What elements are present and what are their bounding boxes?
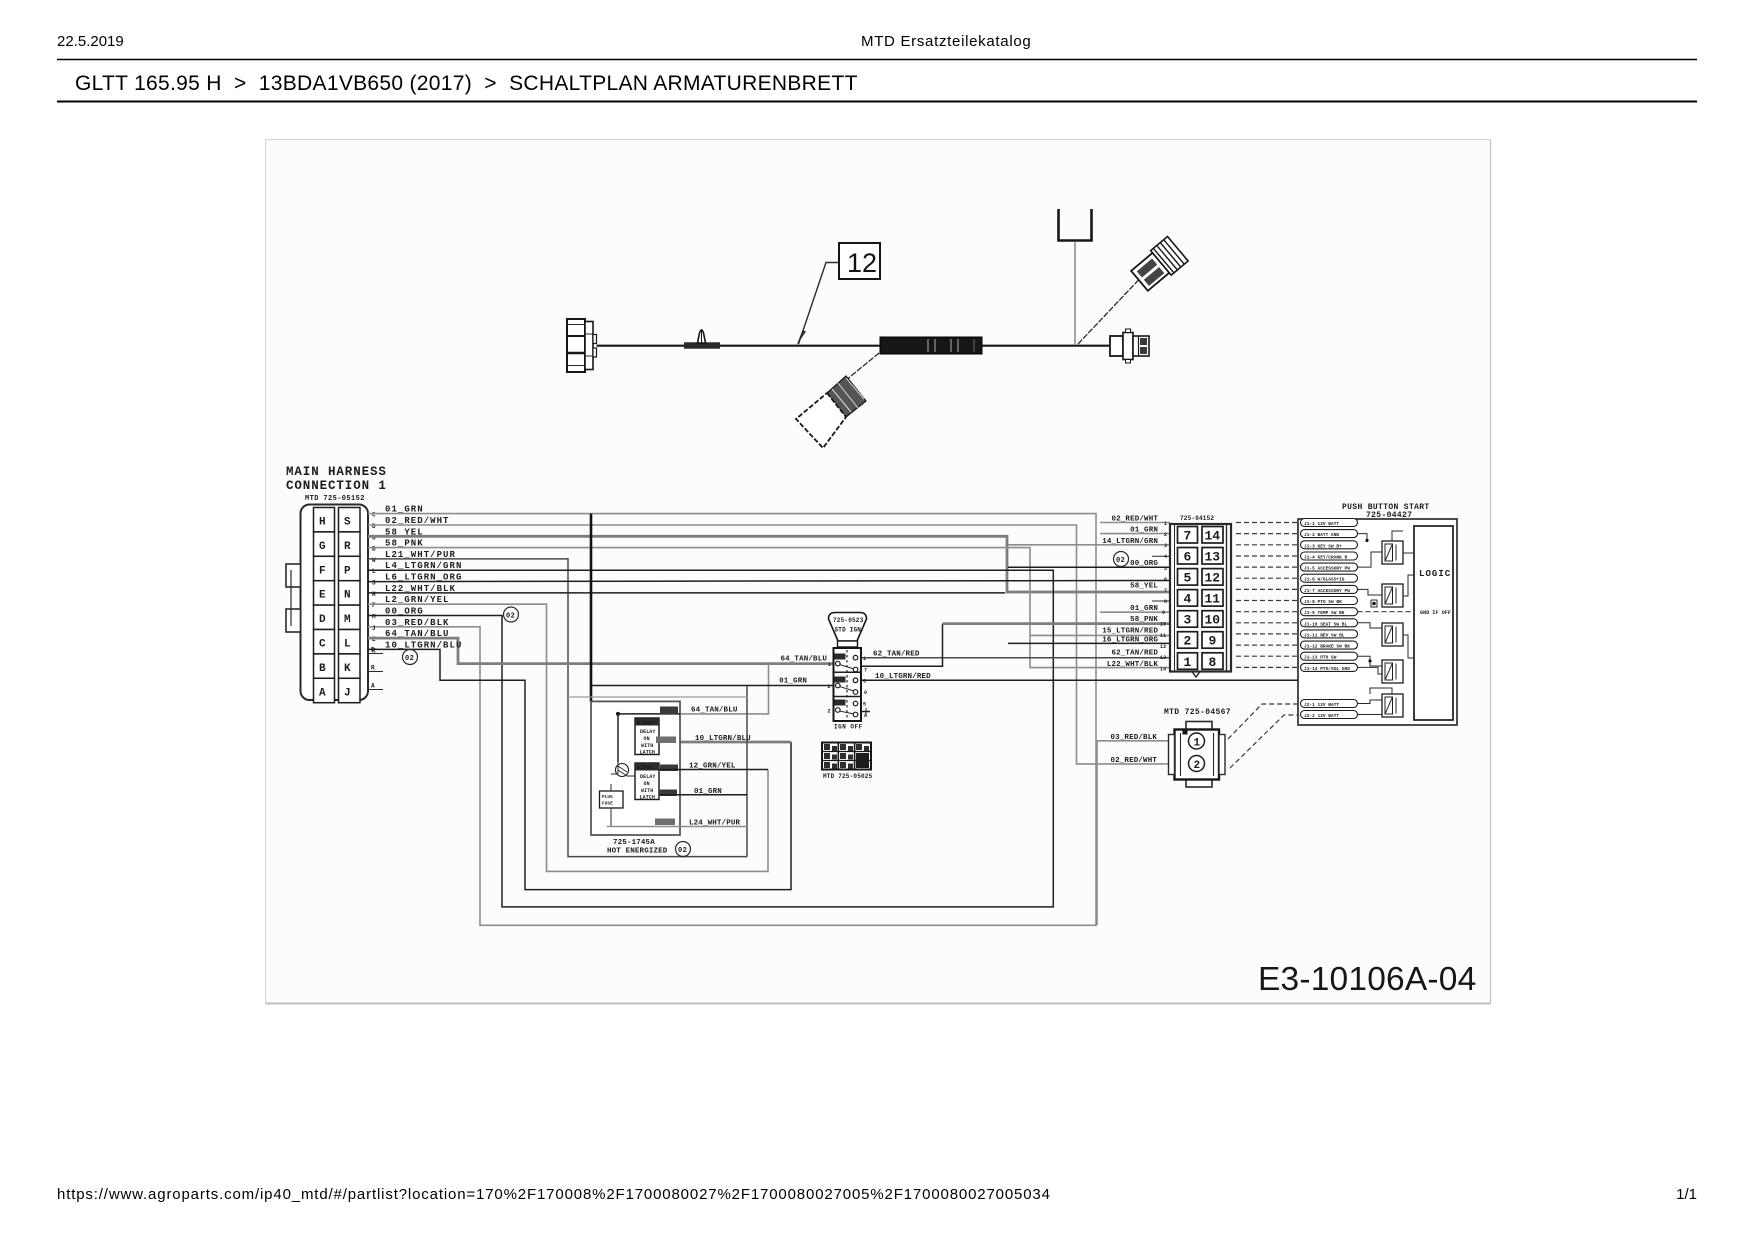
- svg-text:J1-10 SEAT SW BL: J1-10 SEAT SW BL: [1304, 621, 1348, 627]
- wire 02_RED/WHT (pin D): [368, 516, 1174, 764]
- svg-text:12: 12: [847, 248, 877, 278]
- key switch body: [834, 648, 862, 721]
- svg-text:725-1745A: 725-1745A: [613, 839, 655, 847]
- wire 58_PNK to connector pin 10: [943, 622, 1171, 625]
- wire 01_GRN stub connector pin 9: [1100, 611, 1170, 613]
- svg-text:J1-9 TEMP SW BK: J1-9 TEMP SW BK: [1304, 610, 1345, 616]
- svg-text:K: K: [344, 663, 351, 675]
- heat shrink sleeve: [880, 337, 982, 354]
- svg-text:E: E: [319, 590, 326, 602]
- svg-text:11: 11: [1205, 592, 1221, 607]
- svg-text:FUSE: FUSE: [602, 801, 613, 807]
- svg-text:L: L: [372, 568, 376, 575]
- pin A: [314, 678, 335, 702]
- wire 03_RED/BLK to 2-pin connector: [1097, 734, 1174, 926]
- svg-text:F: F: [372, 602, 376, 609]
- pin E: [314, 581, 335, 605]
- right end connector P4: [1110, 329, 1149, 363]
- harness connector P1 (left multi-pin plug): [567, 319, 597, 372]
- terminal J1-12: [1301, 641, 1358, 650]
- wire 62_TAN/RED key switch to connector: [861, 651, 1170, 659]
- svg-text:J2-2 12V BATT: J2-2 12V BATT: [1304, 713, 1339, 719]
- terminal J1-6: [1301, 574, 1358, 583]
- svg-text:00_ORG: 00_ORG: [385, 607, 424, 617]
- svg-text:3: 3: [1184, 613, 1192, 628]
- wire tag 10: [656, 737, 676, 744]
- connector J2 cavity 1: [1178, 653, 1198, 670]
- svg-text:4: 4: [1164, 554, 1167, 560]
- svg-text:02: 02: [405, 655, 414, 663]
- svg-text:16_LTGRN_ORG: 16_LTGRN_ORG: [1102, 636, 1158, 644]
- wire 64_TAN/BLU (pin E): [368, 629, 834, 714]
- cable clip: [684, 329, 720, 349]
- relay RL1 wiring: [1358, 534, 1368, 541]
- svg-text:5.2A50: 5.2A50: [637, 765, 654, 771]
- harness link dashed wire J3-2 to module: [1230, 715, 1297, 768]
- svg-text:03_RED/BLK: 03_RED/BLK: [385, 618, 450, 628]
- key switch contacts left: [836, 661, 841, 666]
- svg-text:15_LTGRN/RED: 15_LTGRN/RED: [1102, 627, 1158, 635]
- terminal J2-1: [1301, 700, 1358, 709]
- connector J2 cavity 13: [1202, 548, 1223, 565]
- key switch blades: [840, 665, 855, 670]
- svg-text:14: 14: [1205, 529, 1221, 544]
- svg-text:A: A: [371, 683, 375, 690]
- svg-text:J1-6 W/GLASS+IG: J1-6 W/GLASS+IG: [1304, 577, 1345, 583]
- svg-text:1: 1: [1164, 521, 1167, 527]
- terminal J1-10: [1301, 619, 1358, 628]
- svg-text:6: 6: [1184, 550, 1192, 565]
- relay RL3 wiring: [1358, 623, 1383, 628]
- connector J1 body: [301, 505, 369, 701]
- fuse block FB1: [822, 743, 871, 770]
- connector J3 body (2 pin): [1169, 722, 1226, 788]
- wire L22_WHT/BLK (pin H): [368, 584, 1005, 598]
- terminal J1-4: [1301, 552, 1358, 561]
- svg-text:6: 6: [1164, 577, 1167, 583]
- svg-text:B: B: [319, 663, 326, 675]
- callout 12 box: [839, 243, 880, 279]
- svg-text:2: 2: [1184, 634, 1192, 649]
- key switch stub pin A: [861, 711, 870, 713]
- relay RL2 wiring: [1358, 589, 1383, 595]
- terminal J2-2: [1301, 711, 1358, 720]
- wire L4_LTGRN/GRN (pin L): [368, 561, 1053, 907]
- svg-text:J1-2 BATT GND: J1-2 BATT GND: [1304, 532, 1339, 538]
- svg-text:WITH: WITH: [641, 788, 653, 794]
- wire L2_GRN/YEL (pin F): [368, 595, 768, 871]
- svg-text:N: N: [344, 590, 351, 602]
- svg-text:LATCH: LATCH: [640, 750, 656, 756]
- drop wire from bracket: [1074, 242, 1076, 345]
- svg-text:2: 2: [1164, 532, 1167, 538]
- svg-text:G: G: [319, 541, 326, 553]
- fuse F1: [600, 784, 624, 827]
- pin B: [314, 654, 335, 678]
- wire stub connector pin 2: [1100, 533, 1170, 535]
- wire 10_LTGRN/BLU (pin K): [368, 640, 791, 889]
- spare pin stub R: [368, 671, 383, 673]
- node 02 splice (relay module): [676, 842, 691, 857]
- svg-text:R: R: [344, 541, 351, 553]
- relay RL2: [1382, 584, 1403, 607]
- pin K: [339, 654, 361, 678]
- svg-text:8: 8: [1164, 599, 1167, 605]
- svg-text:64_TAN/BLU: 64_TAN/BLU: [691, 707, 738, 715]
- svg-text:S: S: [372, 580, 376, 587]
- svg-text:J1-14 PTO/SOL GND: J1-14 PTO/SOL GND: [1304, 666, 1350, 672]
- svg-text:12: 12: [1160, 644, 1166, 650]
- wire L6_LTGRN_ORG (pin S): [368, 573, 1170, 587]
- branch wire to top-right connector: [1078, 271, 1147, 344]
- svg-text:M: M: [372, 614, 376, 621]
- terminal J1-11: [1301, 630, 1358, 639]
- svg-text:62_TAN/RED: 62_TAN/RED: [1111, 650, 1158, 658]
- svg-text:J1-7 ACCESSORY PW: J1-7 ACCESSORY PW: [1304, 588, 1350, 594]
- svg-text:64_TAN/BLU: 64_TAN/BLU: [780, 656, 827, 664]
- svg-text:J: J: [344, 687, 351, 699]
- svg-text:MAIN HARNESS: MAIN HARNESS: [286, 465, 387, 479]
- svg-text:M: M: [344, 614, 351, 626]
- diagonal connector P2 (hatched boot): [796, 376, 866, 448]
- pin M: [339, 605, 361, 629]
- wire 12_GRN/YEL relay output: [659, 763, 768, 771]
- terminal J1-7: [1301, 585, 1358, 594]
- svg-text:14: 14: [1160, 666, 1166, 672]
- svg-text:13: 13: [1205, 550, 1221, 565]
- connector J2 cavity 5: [1178, 569, 1198, 586]
- svg-text:J1-4 KEY/CRANK B: J1-4 KEY/CRANK B: [1304, 555, 1348, 561]
- relay RL5: [1382, 694, 1403, 717]
- svg-text:MTD 725-05152: MTD 725-05152: [305, 495, 365, 503]
- svg-text:1: 1: [828, 662, 831, 668]
- wire 01_GRN to key switch: [591, 678, 834, 857]
- svg-text:7: 7: [864, 668, 867, 674]
- wire stub connector pin 8: [1152, 600, 1170, 602]
- wire 58_YEL (pin G): [368, 527, 1170, 592]
- branch wire to diagonal connector: [845, 353, 879, 381]
- svg-text:1: 1: [863, 656, 866, 662]
- bracket symbol above harness: [1059, 209, 1092, 241]
- relay RL4: [1382, 660, 1403, 683]
- key switch section tag BAT: [835, 654, 846, 660]
- svg-text:J1-8 PTO SW BK: J1-8 PTO SW BK: [1304, 599, 1342, 605]
- svg-text:10: 10: [1160, 622, 1166, 628]
- svg-text:K: K: [372, 647, 376, 654]
- svg-text:ON: ON: [644, 781, 650, 787]
- svg-text:2: 2: [828, 684, 831, 690]
- connector J2 cavity 8: [1202, 653, 1223, 670]
- svg-text:5: 5: [1164, 566, 1167, 572]
- connector J3 pin 2: [1189, 756, 1205, 772]
- wire L21_WHT/PUR (pin W): [368, 550, 747, 857]
- pin R: [339, 532, 361, 556]
- svg-text:10_LTGRN/BLU: 10_LTGRN/BLU: [695, 735, 751, 743]
- svg-text:1: 1: [1184, 655, 1192, 670]
- pin H: [314, 508, 335, 532]
- relay module K1 enclosure: [591, 701, 680, 835]
- wire 58_PNK (pin B): [368, 539, 1170, 668]
- svg-text:5: 5: [1184, 571, 1192, 586]
- pin G: [314, 532, 335, 556]
- wire 00_ORG label (pin M): [372, 607, 424, 621]
- relay RL4 wiring: [1358, 656, 1383, 666]
- svg-text:https://www.agroparts.com/ip40: https://www.agroparts.com/ip40_mtd/#/par…: [57, 1186, 1051, 1203]
- svg-text:J1-1 12V BATT: J1-1 12V BATT: [1304, 521, 1339, 527]
- svg-text:J1-13 PTO SW: J1-13 PTO SW: [1304, 655, 1337, 661]
- svg-text:10: 10: [1205, 613, 1221, 628]
- gnd if off dashed wire: [1358, 611, 1415, 613]
- push button start module U1 enclosure: [1298, 519, 1457, 725]
- svg-text:H: H: [319, 517, 326, 529]
- harness link dashed wires J2 to push button module: [1236, 523, 1297, 668]
- svg-text:PLUG: PLUG: [602, 794, 613, 800]
- terminal J1-14: [1301, 663, 1358, 672]
- svg-text:7: 7: [1164, 588, 1167, 594]
- svg-text:0: 0: [864, 690, 867, 696]
- svg-text:WITH: WITH: [641, 743, 653, 749]
- svg-text:A: A: [319, 687, 326, 699]
- svg-text:H: H: [372, 591, 376, 598]
- wire 16_LTGRN_ORG stub connector pin 12: [1008, 642, 1170, 644]
- svg-text:L: L: [344, 639, 351, 651]
- svg-text:5.2A50: 5.2A50: [637, 720, 654, 726]
- pin D: [314, 605, 335, 629]
- key switch contacts right: [853, 655, 858, 660]
- svg-text:J: J: [372, 625, 376, 632]
- connector J2 cavity 6: [1178, 548, 1198, 565]
- pin L: [339, 630, 361, 654]
- svg-text:J1-12 BRAKE SW BK: J1-12 BRAKE SW BK: [1304, 644, 1350, 650]
- svg-text:LOGIC: LOGIC: [1419, 569, 1451, 579]
- svg-text:9: 9: [1209, 634, 1217, 649]
- connector J2 cavity 4: [1178, 590, 1198, 607]
- internal bus wire: [617, 714, 619, 762]
- svg-text:2: 2: [828, 709, 831, 715]
- wire 01_GRN (pin C): [368, 505, 1096, 926]
- svg-text:F: F: [319, 565, 326, 577]
- pin P: [339, 556, 361, 580]
- svg-text:ON: ON: [644, 736, 650, 742]
- svg-text:02: 02: [1116, 557, 1125, 565]
- svg-text:DELAY: DELAY: [640, 729, 656, 735]
- top-right connector P3 (hatched plug): [1129, 236, 1188, 293]
- svg-text:725-04152: 725-04152: [1180, 515, 1214, 522]
- svg-text:DELAY: DELAY: [640, 774, 656, 780]
- svg-text:L22_WHT/BLK: L22_WHT/BLK: [1107, 661, 1159, 669]
- terminal J1-8: [1301, 597, 1358, 606]
- connector J2 cavity 10: [1202, 611, 1223, 628]
- svg-text:GND IF OFF: GND IF OFF: [1420, 610, 1451, 616]
- connector J2 cavity 7: [1178, 527, 1198, 544]
- terminal J1-5: [1301, 563, 1358, 572]
- svg-text:5: 5: [863, 702, 866, 708]
- connector J2 body (14 pin): [1170, 524, 1231, 672]
- diagram sheet background: [266, 140, 1491, 1004]
- svg-text:1: 1: [1194, 738, 1201, 750]
- svg-text:01_GRN: 01_GRN: [1130, 605, 1158, 613]
- bus riser 01_GRN feed: [590, 514, 593, 702]
- spare pin stub A: [368, 689, 383, 691]
- svg-text:4: 4: [1184, 592, 1192, 607]
- svg-text:J1-11 REV SW BL: J1-11 REV SW BL: [1304, 632, 1345, 638]
- timer relay K1b DELAY ON WITH LATCH: [635, 763, 659, 801]
- pin N: [339, 581, 361, 605]
- wire tag 64: [660, 707, 678, 714]
- terminal J1-3: [1301, 541, 1358, 550]
- relay RL5 wiring: [1358, 700, 1383, 704]
- svg-text:01_GRN: 01_GRN: [779, 678, 807, 686]
- svg-text:22.5.2019: 22.5.2019: [57, 33, 124, 50]
- header rule 1: [57, 59, 1697, 61]
- terminal J1-1: [1301, 519, 1358, 528]
- relay module outer ring wire: [568, 696, 747, 698]
- wire stub connector pin 1: [1100, 522, 1170, 524]
- svg-text:J1-3 KEY SW B+: J1-3 KEY SW B+: [1304, 543, 1342, 549]
- header rule 2: [57, 101, 1697, 103]
- harness link dashed wire J3-1 to module: [1228, 704, 1297, 739]
- svg-text:MTD 725-05025: MTD 725-05025: [823, 773, 873, 780]
- svg-text:13: 13: [1160, 655, 1166, 661]
- pin J: [339, 678, 361, 702]
- harness main cable: [597, 345, 881, 347]
- logic block: [1414, 526, 1453, 720]
- connector J3 pin 1: [1189, 733, 1205, 749]
- svg-text:58_YEL: 58_YEL: [1130, 583, 1158, 591]
- connector J1 latch: [286, 564, 301, 587]
- svg-text:GLTT 165.95 H > 13BDA1VB650: GLTT 165.95 H > 13BDA1VB650 (2017) > SCH…: [75, 72, 858, 95]
- wire tag L24: [655, 819, 675, 826]
- connector J2 cavity 3: [1178, 611, 1198, 628]
- spare pin stub P: [368, 653, 383, 655]
- svg-text:2: 2: [1194, 760, 1201, 772]
- connector J2 cavity 9: [1202, 632, 1223, 649]
- wire L24_WHT/PUR relay output: [607, 820, 747, 828]
- svg-text:8: 8: [1209, 655, 1217, 670]
- svg-text:1/1: 1/1: [1676, 1186, 1697, 1203]
- connector J2 cavity 12: [1202, 569, 1223, 586]
- node 02 splice (lower left): [403, 650, 418, 665]
- svg-text:02: 02: [678, 847, 687, 855]
- svg-text:3: 3: [1164, 543, 1167, 549]
- terminal J1-9: [1301, 608, 1358, 617]
- timer relay K1a DELAY ON WITH LATCH: [635, 718, 659, 756]
- key switch S1 bezel: [829, 613, 867, 642]
- svg-text:00_ORG: 00_ORG: [1130, 560, 1158, 568]
- wire 03_RED/BLK label (pin J): [372, 618, 450, 632]
- svg-text:C: C: [372, 512, 376, 519]
- svg-text:7: 7: [1184, 529, 1192, 544]
- key switch section tag ACC: [835, 700, 846, 706]
- svg-text:J1-5 ACCESSORY PW: J1-5 ACCESSORY PW: [1304, 566, 1350, 572]
- relay RL1: [1382, 541, 1403, 564]
- transistor Q1: [611, 762, 635, 777]
- svg-text:S: S: [344, 517, 351, 529]
- node 02 splice (near 14-pin connector): [1114, 552, 1129, 567]
- relay RL3: [1382, 623, 1403, 646]
- wire tag 01: [659, 790, 677, 797]
- svg-text:D: D: [319, 614, 326, 626]
- svg-text:W: W: [372, 557, 376, 564]
- svg-text:J2-1 12V BATT: J2-1 12V BATT: [1304, 702, 1339, 708]
- svg-text:01_GRN: 01_GRN: [1130, 527, 1158, 535]
- wire 14_LTGRN/GRN stub at connector pin 3: [1008, 544, 1170, 546]
- pin S: [339, 508, 361, 532]
- terminal J1-13: [1301, 652, 1358, 661]
- svg-text:B: B: [372, 546, 376, 553]
- node 02 splice (near 00_ORG): [504, 607, 519, 622]
- wire 01_GRN relay output: [659, 788, 747, 796]
- svg-text:11: 11: [1160, 633, 1166, 639]
- svg-text:9: 9: [1162, 610, 1165, 616]
- callout 12 leader: [799, 263, 840, 345]
- node junction dot: [616, 712, 620, 716]
- svg-text:725-0523: 725-0523: [833, 617, 864, 624]
- svg-text:LATCH: LATCH: [640, 795, 656, 801]
- svg-text:IGN OFF: IGN OFF: [834, 724, 863, 731]
- svg-text:R: R: [371, 665, 375, 672]
- wire 10_LTGRN/RED key switch to module: [861, 673, 1298, 681]
- pin F: [314, 556, 335, 580]
- svg-text:MTD Ersatzteilekatalog: MTD Ersatzteilekatalog: [861, 33, 1031, 50]
- key switch section tag IGN: [835, 677, 846, 683]
- wire 58_PNK key switch riser: [861, 624, 943, 667]
- wire tag BAT1: [660, 765, 678, 772]
- svg-text:3: 3: [863, 679, 866, 685]
- connector J2 cavity 11: [1202, 590, 1223, 607]
- svg-text:E3-10106A-04: E3-10106A-04: [1258, 961, 1476, 998]
- svg-text:02_RED/WHT: 02_RED/WHT: [1110, 757, 1157, 765]
- connector J2 cavity 2: [1178, 632, 1198, 649]
- svg-text:D: D: [372, 523, 376, 530]
- svg-text:P: P: [344, 565, 351, 577]
- svg-text:14_LTGRN/GRN: 14_LTGRN/GRN: [1102, 538, 1158, 546]
- svg-text:02_RED/WHT: 02_RED/WHT: [1111, 516, 1158, 524]
- pin C: [314, 630, 335, 654]
- svg-text:MTD 725-04567: MTD 725-04567: [1164, 708, 1231, 717]
- key switch neck: [838, 641, 858, 647]
- terminal J1-2: [1301, 530, 1358, 539]
- wire stub connector pin 4: [1152, 555, 1170, 557]
- svg-text:HOT ENERGIZED: HOT ENERGIZED: [607, 848, 668, 856]
- wire 00_ORG stub at connector pin 5: [1008, 566, 1170, 568]
- svg-text:58_PNK: 58_PNK: [1130, 616, 1158, 624]
- svg-text:C: C: [319, 639, 326, 651]
- svg-text:12: 12: [1205, 571, 1221, 586]
- svg-text:STD IGN: STD IGN: [835, 627, 862, 634]
- connector J2 cavity 14: [1202, 527, 1223, 544]
- svg-text:CONNECTION 1: CONNECTION 1: [286, 479, 387, 493]
- svg-text:02: 02: [506, 613, 515, 621]
